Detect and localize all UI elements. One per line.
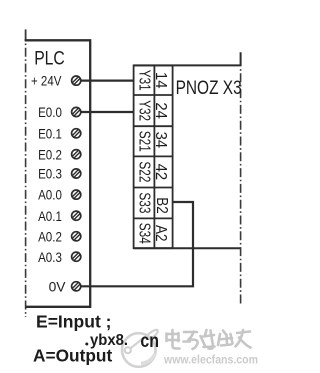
svg-text:E=Input ;: E=Input ; [36, 311, 112, 331]
svg-text:E0.0: E0.0 [38, 104, 62, 120]
PNOZ X3 bottom boundary line [134, 247, 241, 249]
terminal A0.1 [72, 211, 81, 220]
wire E0.0 to Y32 [81, 111, 134, 113]
terminal A0.0 [72, 190, 81, 199]
terminal E0.3 [72, 169, 81, 178]
svg-text:ybx8.: ybx8. [90, 332, 128, 349]
terminal strip row dividers [134, 95, 173, 218]
svg-text:34: 34 [152, 132, 169, 149]
svg-text:A0.3: A0.3 [38, 249, 62, 265]
terminal 0V [72, 282, 81, 291]
terminal strip column divider [153, 65, 155, 248]
svg-text:S33: S33 [135, 192, 152, 213]
terminal A0.2 [72, 232, 81, 241]
svg-text:PNOZ X3: PNOZ X3 [176, 78, 242, 99]
svg-text:Y31: Y31 [135, 70, 152, 91]
svg-text:14: 14 [152, 72, 169, 89]
svg-text:24: 24 [152, 102, 169, 119]
terminal A0.3 [72, 252, 81, 261]
terminal E0.1 [72, 129, 81, 138]
svg-text:A0.2: A0.2 [38, 228, 62, 244]
svg-text:42: 42 [152, 164, 169, 181]
svg-text:E0.3: E0.3 [38, 166, 62, 182]
svg-text:A2: A2 [152, 225, 169, 242]
watermark 电子发烧友 (approximated strokes) [167, 330, 251, 349]
PNOZ X3 top boundary line [134, 52, 241, 65]
terminal strip outline [134, 65, 173, 248]
svg-text:B2: B2 [153, 197, 170, 214]
svg-text:Y32: Y32 [135, 100, 152, 121]
wire B2 to 0V [81, 202, 193, 286]
PLC box [25, 40, 91, 307]
PLC cabinet dash-dot border (left) [25, 29, 27, 40]
svg-text:A0.0: A0.0 [38, 187, 62, 203]
svg-text:A0.1: A0.1 [38, 208, 62, 224]
svg-text:S21: S21 [135, 131, 152, 152]
terminal +24V [72, 76, 81, 85]
watermark leading dot [85, 343, 88, 346]
svg-text:S22: S22 [135, 161, 152, 182]
terminal E0.0 [72, 107, 81, 116]
svg-text:E0.2: E0.2 [38, 146, 62, 162]
svg-text:0V: 0V [49, 278, 67, 294]
svg-text:E0.1: E0.1 [38, 125, 62, 141]
svg-text:PLC: PLC [34, 49, 65, 70]
svg-text:+ 24V: + 24V [31, 73, 62, 89]
svg-text:cn: cn [140, 331, 159, 352]
watermark elecfans logo circle [122, 330, 158, 367]
svg-text:S34: S34 [135, 223, 152, 244]
wire +24V to Y31 [81, 79, 134, 81]
svg-text:www.elecfans.com: www.elecfans.com [163, 355, 258, 367]
PNOZ X3 dash-dot border (right) [240, 67, 242, 307]
terminal E0.2 [72, 150, 81, 159]
